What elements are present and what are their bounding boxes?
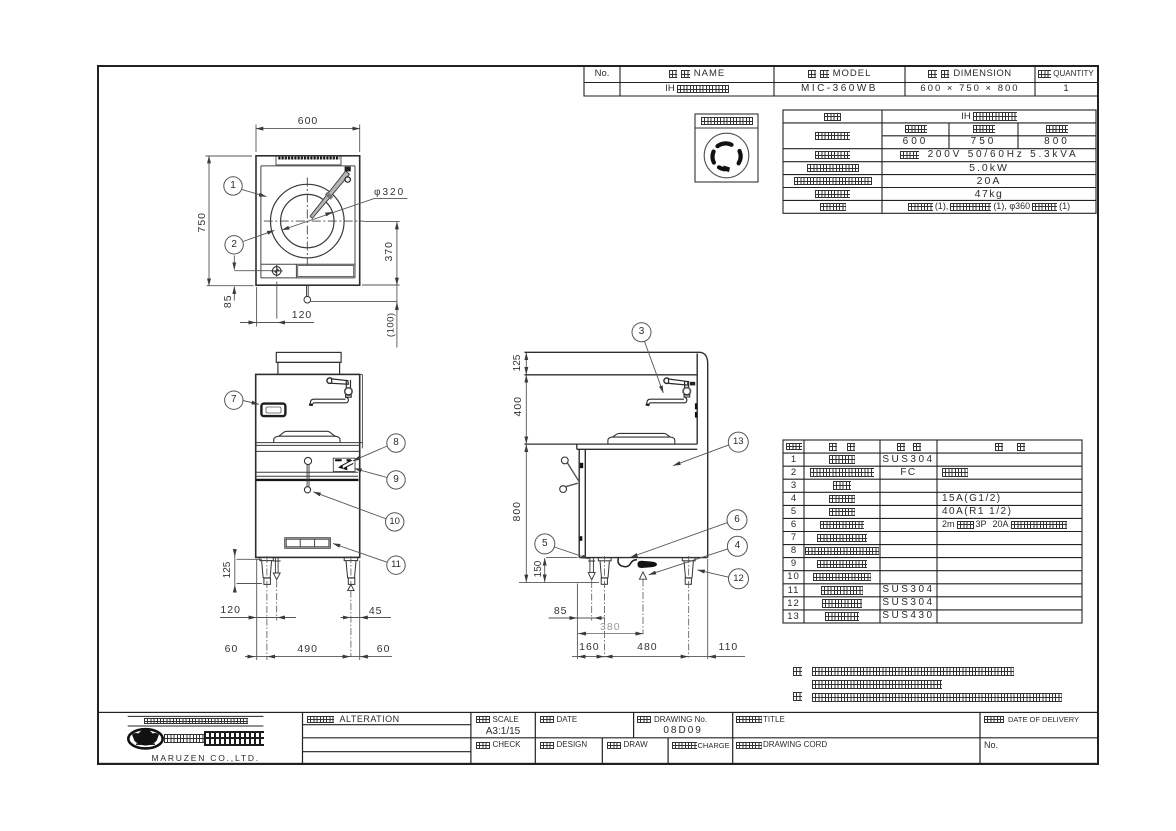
balloon 6 xyxy=(727,510,747,530)
lever ball (10) xyxy=(304,487,310,493)
top shelf / hood lines xyxy=(524,352,707,557)
top grille frame xyxy=(276,156,341,165)
title block grid xyxy=(98,712,1098,763)
balloon 4 xyxy=(727,536,747,556)
water inlet marker (side) xyxy=(639,572,646,579)
faucet (side): handle xyxy=(664,378,670,384)
leader 9 xyxy=(354,469,387,478)
faucet stem/valve (side) xyxy=(685,381,689,388)
water supply marker (front, up arrow under right leg) xyxy=(348,585,355,591)
knob levers xyxy=(566,463,579,487)
leader 10 xyxy=(314,492,387,519)
parts rows materials xyxy=(880,453,937,466)
dim 600 ext+line xyxy=(256,125,360,153)
balloon 11 xyxy=(387,556,405,574)
top grille slots xyxy=(278,157,340,160)
outlet shape box xyxy=(695,114,758,182)
drain cross symbol xyxy=(271,265,283,277)
side knobs xyxy=(561,457,568,464)
dim 150 (side) xyxy=(519,558,599,583)
switch knob (8) xyxy=(304,457,311,464)
side leg centerlines xyxy=(605,556,689,658)
leg centerlines xyxy=(267,556,351,660)
faucet spout (side) xyxy=(650,397,687,403)
balloon 1 xyxy=(224,177,242,195)
drain pipe (side) xyxy=(588,558,595,580)
front right leg xyxy=(344,557,358,584)
parts table grid xyxy=(783,440,1082,623)
maruzen logo overline/underline xyxy=(128,716,264,726)
faucet spout (front) xyxy=(314,397,349,403)
drain leader line to (100) dim xyxy=(311,300,397,302)
indicator (7) bezel xyxy=(261,404,285,417)
dim 85 (plan) xyxy=(234,256,272,301)
side panel edge line xyxy=(360,374,363,448)
notes xyxy=(793,667,802,676)
title block text xyxy=(144,718,248,725)
chimney top xyxy=(276,352,341,362)
drain pipe below plan xyxy=(307,285,309,296)
balloon 7 xyxy=(225,391,243,409)
balloon 13 xyxy=(728,432,748,452)
parts rows remarks xyxy=(942,466,1082,479)
balloon numbers text xyxy=(223,180,243,192)
parts table text xyxy=(783,440,804,453)
plan outer body rect xyxy=(256,156,360,285)
ext line body back edge (side) xyxy=(707,559,709,659)
faucet arm (plan) xyxy=(310,167,351,219)
pot rings (outer ring + inner pot) xyxy=(271,184,345,258)
leader 6 xyxy=(631,523,728,558)
leader 12 xyxy=(698,570,729,577)
outlet label xyxy=(695,114,758,128)
dark counter edge band xyxy=(256,479,359,481)
maruzen logo mark xyxy=(128,728,162,748)
balloon 12 xyxy=(729,569,749,589)
dim 120 (plan) xyxy=(240,282,314,327)
dim (100) xyxy=(396,285,398,348)
leader 13 xyxy=(673,445,728,466)
dim 120 (front) xyxy=(220,559,296,660)
counter (side) xyxy=(524,444,697,449)
dim 370 xyxy=(362,221,400,285)
dim 45 (front) xyxy=(341,561,392,661)
power plug xyxy=(638,561,658,568)
top table text xyxy=(584,66,620,82)
balloon 5 xyxy=(535,534,555,554)
balloon 8 xyxy=(387,434,405,452)
leader 11 xyxy=(333,544,387,563)
phi320 diameter line with label leader xyxy=(282,199,407,230)
spec table text xyxy=(783,110,882,123)
pot rim (front) xyxy=(274,431,340,443)
switch panel (9) xyxy=(333,458,355,471)
dim 85 (side) xyxy=(549,584,606,660)
pot centerlines xyxy=(264,178,364,266)
dimension labels xyxy=(288,116,328,127)
leader 1 xyxy=(242,189,267,196)
balloon 10 xyxy=(386,513,404,531)
leader 5 xyxy=(554,547,589,559)
front counter lines xyxy=(256,443,363,477)
vent filter (11) xyxy=(285,538,331,548)
leader 4 xyxy=(649,549,728,575)
parts rows names xyxy=(804,453,880,466)
lever stem xyxy=(307,465,309,487)
faucet wall mount marks xyxy=(695,403,697,409)
dim 125 (front left) xyxy=(235,549,262,593)
drain pipe circle xyxy=(304,296,311,303)
leader 7 xyxy=(243,401,259,405)
front face fittings xyxy=(580,463,583,468)
dim 380 (side) xyxy=(577,633,643,635)
pot rim (side) xyxy=(608,433,675,444)
plan inner panel lines xyxy=(261,166,355,278)
body lower (side) xyxy=(579,449,708,557)
leader 2 xyxy=(243,230,274,241)
outlet connector symbol xyxy=(704,133,749,178)
leader 8 xyxy=(353,446,387,461)
power cord (side) xyxy=(618,558,637,567)
balloon 3 xyxy=(632,323,651,342)
faucet stem and bulb xyxy=(346,380,350,388)
dim 160/480/110 (side bottom) xyxy=(572,656,745,658)
top name/model table xyxy=(584,66,1097,96)
faucet (front): handle ring xyxy=(327,378,333,384)
side back leg xyxy=(682,558,695,585)
parts rows numbers xyxy=(783,453,804,466)
leader 3 xyxy=(645,341,664,393)
front left leg xyxy=(260,557,274,584)
dim 125/400/800 (side left) xyxy=(525,353,527,582)
front body xyxy=(256,374,360,557)
spec table grid xyxy=(783,110,1096,213)
dim 60/490/60 (front bottom) xyxy=(245,656,392,658)
drawing frame xyxy=(98,66,1098,764)
side front leg xyxy=(598,558,611,585)
drain pipe (front) with down arrow xyxy=(273,557,281,579)
dim 750 ext+line xyxy=(206,156,254,286)
faucet handle bar xyxy=(332,379,349,384)
balloon 9 xyxy=(387,471,405,489)
balloon 2 xyxy=(225,236,243,254)
indicator window xyxy=(266,407,281,413)
